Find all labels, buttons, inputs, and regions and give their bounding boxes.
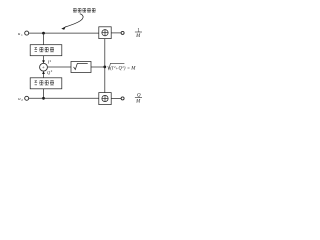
wire sqrt to junction [91, 66, 105, 68]
node junction bottom [42, 97, 45, 100]
label fraction 1/M [135, 28, 142, 38]
wire adder to sqrt box [47, 66, 71, 68]
svg-text:): ) [123, 67, 126, 72]
wire junction up to divider 1 [104, 39, 106, 67]
label sqrt(I2+Q2)=M [108, 63, 136, 71]
sqrt box [71, 62, 91, 73]
node junction top [42, 32, 45, 35]
wire adder to squarer 2 with arrow up [43, 73, 45, 78]
terminal output 1 [121, 31, 124, 34]
squarer box 1 [30, 45, 62, 56]
wire top horizontal [29, 32, 99, 34]
wire squarer2 to bottom junction [43, 89, 45, 99]
label fraction Q/M [135, 93, 142, 104]
node junction M [103, 66, 106, 69]
squarer box 2 [30, 78, 62, 89]
terminal input 2 [25, 96, 29, 100]
wire junction to squarer 1 [43, 33, 45, 45]
divider box 1 (top) [99, 27, 111, 39]
annotation text (normalizing label) [73, 9, 95, 13]
terminal output 2 [121, 97, 124, 100]
svg-text:+: + [42, 66, 45, 71]
terminal input 1 [25, 31, 29, 35]
wire squarer1 to adder with arrow [43, 56, 45, 61]
adder circle [40, 63, 48, 71]
wire bottom horizontal [29, 97, 99, 99]
wire divider2 to output terminal 2 [111, 97, 121, 99]
svg-text:M: M [130, 67, 136, 72]
divider box 2 (bottom) [99, 93, 111, 105]
wire divider1 to output terminal 1 [111, 32, 121, 34]
wire junction down to divider 2 [104, 67, 106, 93]
annotation arrow [61, 14, 83, 30]
